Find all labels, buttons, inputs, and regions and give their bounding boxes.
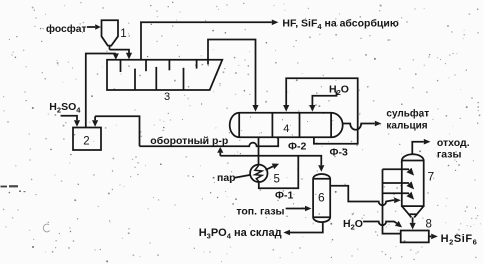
svg-text:сульфат: сульфат (386, 107, 429, 119)
svg-text:Ф-1: Ф-1 (275, 190, 293, 202)
svg-text:фосфат: фосфат (46, 23, 87, 35)
svg-text:3: 3 (164, 91, 170, 103)
svg-text:1: 1 (120, 28, 126, 40)
svg-text:2: 2 (83, 135, 89, 147)
svg-text:оборотный р-р: оборотный р-р (150, 135, 228, 147)
svg-text:газы: газы (437, 149, 462, 161)
svg-text:Ф-2: Ф-2 (288, 140, 306, 152)
svg-text:4: 4 (283, 123, 289, 135)
svg-text:6: 6 (318, 191, 325, 205)
svg-text:кальция: кальция (386, 120, 427, 131)
svg-text:7: 7 (428, 170, 435, 184)
svg-text:HF, SiF4 на абсорбцию: HF, SiF4 на абсорбцию (282, 18, 398, 32)
svg-text:H3PO4 на склад: H3PO4 на склад (199, 227, 282, 241)
svg-text:8: 8 (426, 219, 432, 231)
svg-text:отход.: отход. (437, 137, 470, 149)
svg-text:топ. газы: топ. газы (236, 205, 284, 217)
svg-text:H2SiF6: H2SiF6 (441, 233, 478, 247)
svg-text:5: 5 (274, 174, 280, 186)
svg-text:Ф-3: Ф-3 (330, 147, 348, 159)
svg-text:пар: пар (217, 172, 236, 184)
